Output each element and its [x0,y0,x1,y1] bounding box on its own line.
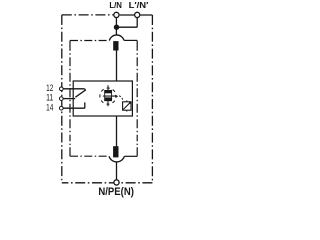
svg-text:N/PE(N): N/PE(N) [98,186,134,198]
svg-text:L/N: L/N [109,0,122,10]
svg-text:12: 12 [46,83,53,93]
svg-text:11: 11 [46,93,53,103]
svg-text:14: 14 [46,102,53,112]
svg-text:L′/N′: L′/N′ [129,0,149,10]
